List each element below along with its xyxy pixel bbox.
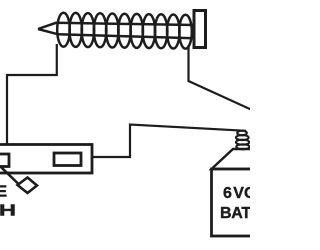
switch handle (diamond knob) [18,178,38,194]
wire from switch right terminal to battery near terminal [92,125,246,158]
knife switch S1 body [0,145,92,174]
svg-text:E: E [0,183,7,200]
svg-text:6: 6 [223,185,232,202]
svg-text:BATTERY: BATTERY [220,205,250,222]
switch left terminal [0,154,9,167]
switch lever arm [0,166,19,185]
battery spring terminal [236,131,249,150]
battery BT1 front face [212,169,292,236]
svg-text:H: H [0,203,16,220]
nail head [194,11,206,48]
switch right terminal [54,153,81,166]
coil L1 wound on nail (11 turns) [57,13,192,49]
wire from right end of coil to battery far terminal (off right edge) [189,45,252,110]
wire from left end of coil down and to switch [7,44,57,145]
nail core (iron nail): point and tapered shaft [38,23,194,39]
battery BT1 top face [212,149,314,169]
svg-text:VOLT: VOLT [233,185,250,202]
